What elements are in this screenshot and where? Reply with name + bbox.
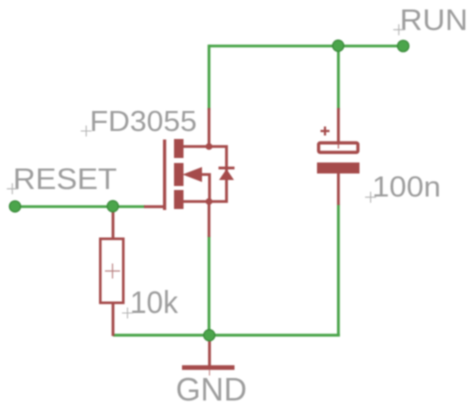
resistor R1 body [100, 239, 123, 303]
svg-text:GND: GND [176, 372, 247, 408]
svg-text:10k: 10k [130, 284, 178, 320]
ground stub wire [208, 335, 211, 366]
svg-text:RESET: RESET [13, 163, 117, 196]
transistor Q1 drain connection line [183, 145, 209, 148]
ground symbol bar [182, 365, 235, 370]
ground origin cross [209, 370, 211, 376]
wire source vertical green segment [208, 236, 211, 335]
junction dot RUN endpoint [398, 40, 409, 51]
svg-text:RUN: RUN [400, 4, 468, 37]
pin capacitor inner thin lead [337, 142, 339, 149]
pin gate lead Q1 [144, 205, 165, 208]
capacitor C1 top plate [319, 143, 358, 153]
transistor Q1 channel bar middle [174, 163, 184, 186]
label RUN origin cross [393, 24, 404, 35]
label 10k origin cross [122, 308, 133, 319]
transistor Q1 body diode branch wire [209, 147, 227, 202]
wire net RUN top horizontal [209, 45, 402, 48]
pin drain lead Q1 [208, 108, 211, 147]
capacitor C1 bottom plate [317, 163, 360, 174]
label FD3055 origin cross [81, 126, 92, 137]
transistor Q1 body arrow [183, 167, 203, 182]
pin capacitor top lead C1 [337, 108, 340, 142]
junction drain red dot [206, 143, 213, 150]
capacitor C1 plus sign [321, 127, 330, 136]
wire capacitor bottom vertical green segment [337, 204, 340, 337]
transistor Q1 channel bar bottom [174, 190, 184, 209]
junction dot RUN capacitor node [333, 40, 344, 51]
transistor Q1 body diode cathode bar [219, 167, 235, 170]
transistor Q1 body connection line [202, 175, 210, 202]
pin resistor bottom lead R1 [112, 304, 115, 336]
resistor R1 origin cross [105, 264, 120, 279]
label 100n origin cross [365, 192, 376, 203]
svg-text:FD3055: FD3055 [90, 106, 197, 138]
transistor Q1 body diode triangle [219, 169, 234, 180]
wire capacitor top vertical green segment [337, 46, 340, 110]
pin capacitor bottom lead C1 [337, 174, 340, 206]
transistor Q1 source connection line [183, 200, 209, 203]
junction dot GND node [204, 330, 215, 341]
pin resistor top lead R1 [112, 208, 115, 238]
wire bottom ground horizontal [113, 334, 340, 337]
pin source lead Q1 [208, 202, 211, 238]
wire net RESET horizontal [15, 205, 145, 208]
wire drain vertical green segment [208, 45, 211, 110]
svg-text:100n: 100n [372, 172, 441, 204]
transistor Q1 channel bar top [174, 139, 184, 158]
label RESET origin cross [7, 183, 18, 194]
junction dot RESET resistor node [107, 201, 118, 212]
junction source red dot [206, 198, 213, 205]
junction dot RESET endpoint [9, 201, 20, 212]
transistor Q1 FD3055 gate bar [163, 140, 166, 211]
